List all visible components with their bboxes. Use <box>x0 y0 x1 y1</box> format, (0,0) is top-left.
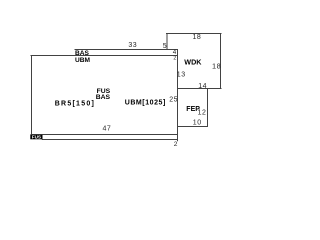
svg-text:UBM: UBM <box>75 57 91 64</box>
wire main outline top edge <box>31 55 178 57</box>
wire right boundary vertical <box>177 50 179 141</box>
wire main outline bottom edge <box>31 134 178 136</box>
svg-text:5: 5 <box>163 43 167 50</box>
svg-text:BAS: BAS <box>96 94 111 101</box>
svg-text:18: 18 <box>193 34 202 41</box>
svg-text:2: 2 <box>174 141 178 148</box>
wire WDK bottom edge <box>178 88 222 90</box>
svg-text:14: 14 <box>198 83 207 90</box>
svg-text:BAS: BAS <box>75 50 90 57</box>
wire main outline left edge <box>31 56 33 135</box>
svg-text:2: 2 <box>173 56 177 62</box>
svg-text:10: 10 <box>193 120 202 127</box>
wire FEP bottom edge <box>178 126 208 128</box>
svg-text:18: 18 <box>212 62 221 71</box>
wire notch vertical 5 <box>166 34 168 50</box>
svg-text:UBM[1025]: UBM[1025] <box>125 100 166 107</box>
wire FEP right edge <box>207 89 209 127</box>
svg-text:FUS: FUS <box>32 135 41 140</box>
svg-text:BR5[150]: BR5[150] <box>55 100 95 107</box>
svg-text:WDK: WDK <box>184 58 202 67</box>
svg-text:47: 47 <box>103 126 112 133</box>
svg-text:13: 13 <box>177 71 186 78</box>
svg-text:25: 25 <box>169 96 178 103</box>
label FUS inverse box bottom left <box>30 135 42 140</box>
wire WDK right edge <box>220 34 222 89</box>
wire BAS strip top line <box>75 49 178 51</box>
wire bottom strip lower line <box>42 139 177 141</box>
wire WDK top edge <box>167 33 222 35</box>
svg-text:12: 12 <box>198 109 207 116</box>
svg-text:33: 33 <box>128 42 137 49</box>
